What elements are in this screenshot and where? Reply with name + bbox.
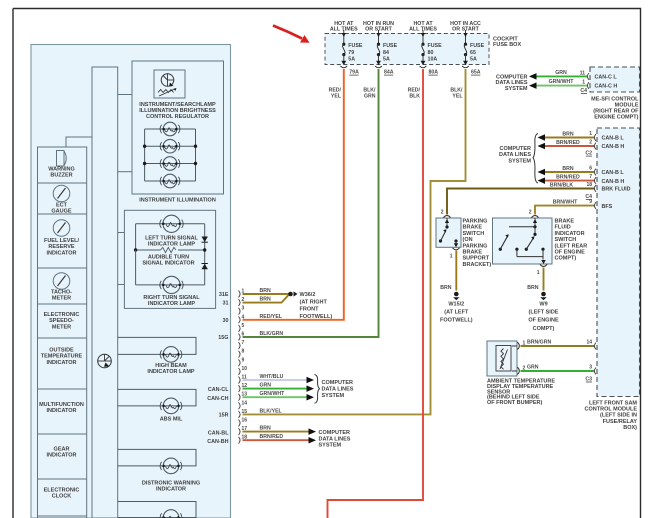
svg-text:DISTRONIC WARNING: DISTRONIC WARNING: [142, 481, 200, 487]
svg-text:RIGHT TURN SIGNAL: RIGHT TURN SIGNAL: [143, 295, 200, 301]
svg-text:16: 16: [242, 418, 248, 424]
svg-text:1: 1: [450, 254, 453, 260]
fuse 84 5A: [378, 30, 380, 44]
svg-text:2: 2: [529, 210, 532, 216]
svg-text:5A: 5A: [383, 56, 390, 62]
cluster pin 13: [239, 394, 241, 401]
svg-text:TACHO-: TACHO-: [51, 290, 72, 296]
cluster pin 11: [239, 377, 241, 384]
svg-text:GRN/WHT: GRN/WHT: [260, 391, 286, 397]
svg-text:31E: 31E: [219, 292, 229, 298]
svg-text:GRN/WHT: GRN/WHT: [549, 79, 575, 85]
wire BRN/GRN ambient sensor to SAM pin 14: [521, 345, 595, 347]
distronic warning indicator lamp: [163, 458, 179, 474]
svg-text:BRAKE: BRAKE: [555, 219, 575, 225]
svg-text:CAN-B L: CAN-B L: [602, 136, 625, 142]
wire BRN from pin 2 joining pin 1: [243, 295, 289, 303]
svg-text:BOX): BOX): [623, 425, 637, 431]
svg-text:W36/2: W36/2: [300, 292, 316, 298]
wire BRN/RED from pin 18: [243, 439, 309, 441]
wire GRN ambient sensor to SAM pin 3: [521, 370, 595, 372]
wire bus to turn box (upper): [118, 232, 125, 234]
svg-text:BRN: BRN: [562, 131, 573, 137]
svg-text:CONTROL MODULE: CONTROL MODULE: [585, 407, 638, 413]
wire RED/BLK from fuse 80 down off-page: [328, 69, 424, 518]
svg-text:BRN: BRN: [440, 285, 451, 291]
svg-text:FUSE BOX: FUSE BOX: [493, 42, 521, 48]
ambient temperature display temperature sensor B10/4 box: [487, 341, 517, 376]
diode V1 on right rail: [202, 237, 208, 243]
svg-text:31: 31: [223, 301, 229, 307]
brake fluid switch pin 1: [540, 265, 547, 267]
svg-text:INDICATOR: INDICATOR: [555, 231, 585, 237]
cluster pin 15: [239, 411, 241, 418]
wire GRN to ME-SFI CAN-C L: [536, 75, 587, 77]
svg-text:ABS MIL: ABS MIL: [160, 417, 183, 423]
wire BRN/RED to SAM CAN-B H pin 7: [544, 180, 594, 182]
wire GRN/WHT from pin 13: [243, 396, 307, 398]
svg-text:GRN: GRN: [527, 365, 539, 371]
svg-text:MULTIFUNCTION: MULTIFUNCTION: [39, 402, 84, 408]
left indicator column box: [38, 147, 87, 518]
wire BRN/BLK parking brake switch to SAM BRK FLUID pin 18: [447, 189, 594, 215]
svg-text:FUEL LEVEL/: FUEL LEVEL/: [44, 238, 80, 244]
high beam indicator circuit loop: [118, 337, 196, 354]
svg-text:3: 3: [589, 364, 592, 370]
svg-text:BLK/YEL: BLK/YEL: [260, 408, 283, 414]
svg-text:GRN: GRN: [555, 70, 567, 76]
svg-text:BLK/GRN: BLK/GRN: [260, 331, 284, 337]
cell divider: [38, 267, 87, 269]
svg-text:79A: 79A: [349, 70, 359, 76]
svg-text:2: 2: [441, 210, 444, 216]
fuse 79 5A: [343, 30, 345, 44]
svg-text:INDICATOR: INDICATOR: [46, 360, 76, 366]
svg-text:GAUGE: GAUGE: [51, 209, 72, 215]
instrument illumination lamp E2 row: [145, 145, 196, 147]
cell divider: [38, 515, 87, 517]
svg-text:FRONT: FRONT: [300, 307, 320, 313]
wire BRN/RED to SAM CAN-B H pin 2: [544, 145, 594, 147]
fuse 79 output connector: [341, 61, 346, 65]
svg-text:(LEFT SIDE IN: (LEFT SIDE IN: [600, 413, 637, 419]
svg-text:BUZZER: BUZZER: [50, 173, 72, 179]
svg-text:BRN/RED: BRN/RED: [556, 140, 580, 146]
diode V2 on right rail: [202, 264, 208, 270]
svg-text:SWITCH: SWITCH: [463, 231, 485, 237]
svg-text:BRN/GRN: BRN/GRN: [527, 340, 551, 346]
cluster pin 4: [239, 316, 241, 323]
svg-text:DATA LINES: DATA LINES: [322, 386, 354, 392]
fuel level gauge icon: [53, 220, 70, 237]
svg-text:METER: METER: [52, 324, 71, 330]
warning buzzer icon: [57, 151, 65, 167]
cell divider: [38, 213, 87, 215]
svg-text:7: 7: [589, 174, 592, 180]
svg-text:C4: C4: [580, 88, 587, 94]
cluster pin 6: [239, 334, 241, 341]
svg-text:7: 7: [242, 340, 245, 346]
cluster pin 5: [239, 325, 241, 332]
cluster pin 3: [239, 308, 241, 315]
svg-text:1: 1: [537, 270, 540, 276]
svg-text:BRK FLUID: BRK FLUID: [602, 187, 631, 193]
svg-text:CAN-B L: CAN-B L: [602, 170, 625, 176]
svg-text:INDICATOR LAMP: INDICATOR LAMP: [147, 369, 194, 375]
svg-text:(ON: (ON: [463, 237, 473, 243]
cluster pin 18: [239, 437, 241, 444]
svg-text:FUSE/RELAY: FUSE/RELAY: [603, 419, 638, 425]
svg-text:INDICATOR: INDICATOR: [46, 408, 76, 414]
illumination sub-box: [132, 61, 224, 194]
svg-text:(LEFT REAR: (LEFT REAR: [555, 243, 588, 249]
illumination brightness control regulator N72: [154, 70, 185, 98]
wire BLK/GRN from pin 6 to fuse 84: [243, 69, 379, 337]
svg-text:84: 84: [383, 50, 389, 56]
svg-text:INDICATOR LAMP: INDICATOR LAMP: [148, 301, 195, 307]
fuse 80 output connector: [421, 61, 426, 65]
svg-text:BRN: BRN: [260, 297, 271, 303]
svg-text:W9: W9: [539, 302, 547, 308]
svg-text:FUSE: FUSE: [428, 43, 443, 49]
svg-text:CAN-C L: CAN-C L: [595, 75, 618, 81]
right turn signal indicator lamp: [163, 276, 180, 293]
svg-text:SPEEDO-: SPEEDO-: [49, 318, 74, 324]
wire RED/YEL from pin 4 to fuse 79: [243, 69, 344, 320]
wire BRN to SAM CAN-B L pin 1: [544, 137, 594, 139]
svg-text:LEFT TURN SIGNAL: LEFT TURN SIGNAL: [145, 236, 198, 242]
svg-text:SYSTEM: SYSTEM: [508, 158, 531, 164]
svg-text:BRACKET): BRACKET): [463, 262, 492, 268]
svg-text:COMPUTER: COMPUTER: [500, 146, 532, 152]
instrument illumination lamp E1 row: [145, 128, 196, 130]
wire BRN from pin 17: [243, 431, 309, 433]
svg-text:AUDIBLE TURN: AUDIBLE TURN: [148, 255, 189, 261]
svg-text:BLK: BLK: [409, 94, 420, 100]
svg-text:15G: 15G: [218, 335, 228, 341]
svg-text:FUSE: FUSE: [348, 43, 363, 49]
fuse 65 output connector: [463, 61, 468, 65]
sensor pin 1: [518, 342, 520, 349]
svg-text:5A: 5A: [348, 56, 355, 62]
wire from left column to internal bus: [66, 137, 92, 147]
svg-text:BRN: BRN: [260, 426, 271, 432]
ground W15/2 (at left footwell): [454, 292, 459, 297]
brace computer data lines system: [533, 134, 538, 183]
cell divider: [38, 388, 87, 390]
svg-text:10A: 10A: [428, 56, 438, 62]
svg-text:(LEFT SIDE: (LEFT SIDE: [529, 310, 559, 316]
svg-text:(AT LEFT: (AT LEFT: [444, 310, 469, 316]
svg-text:BRN/WHT: BRN/WHT: [553, 199, 578, 205]
svg-text:BRN: BRN: [527, 285, 538, 291]
svg-text:BRAKE: BRAKE: [463, 225, 483, 231]
svg-text:2: 2: [523, 366, 526, 372]
sensor symbol in bus channel: [98, 354, 112, 368]
instrument illumination lamp E4 row: [145, 180, 196, 182]
svg-text:COMPT): COMPT): [555, 256, 577, 262]
ABS MIL circuit loop: [118, 389, 196, 406]
parking brake switch S12 box: [436, 218, 461, 247]
svg-text:1: 1: [523, 341, 526, 347]
svg-text:SIGNAL INDICATOR: SIGNAL INDICATOR: [142, 261, 194, 267]
svg-text:WHT/BLU: WHT/BLU: [260, 374, 284, 380]
fuse 80 10A: [422, 30, 424, 44]
svg-text:79: 79: [348, 50, 354, 56]
internal bus channel: [92, 67, 118, 518]
cluster pin 12: [239, 385, 241, 392]
svg-text:RED/YEL: RED/YEL: [260, 314, 283, 320]
instrument illumination lamp rails: [144, 129, 146, 181]
svg-text:11: 11: [580, 70, 586, 76]
svg-text:LEFT FRONT SAM: LEFT FRONT SAM: [589, 401, 637, 407]
svg-text:COMPUTER: COMPUTER: [322, 380, 354, 386]
svg-text:(AT RIGHT: (AT RIGHT: [300, 299, 328, 305]
svg-text:30: 30: [223, 318, 229, 324]
svg-text:PARKING: PARKING: [463, 219, 488, 225]
svg-text:14: 14: [586, 339, 592, 345]
brake fluid switch contacts: [534, 218, 536, 234]
svg-text:C3: C3: [585, 376, 592, 382]
svg-text:BRN: BRN: [562, 166, 573, 172]
svg-text:YEL: YEL: [331, 94, 342, 100]
svg-text:BRN/RED: BRN/RED: [260, 434, 284, 440]
svg-text:ELECTRONIC: ELECTRONIC: [44, 488, 80, 494]
svg-text:8: 8: [242, 349, 245, 355]
svg-text:INDICATOR: INDICATOR: [46, 250, 76, 256]
svg-text:METER: METER: [52, 296, 71, 302]
red annotation arrow: [273, 26, 302, 39]
svg-text:OUTSIDE: OUTSIDE: [49, 348, 74, 354]
audible turn signal indicator row with resistor: [136, 249, 161, 251]
svg-text:80A: 80A: [429, 70, 439, 76]
svg-text:YEL: YEL: [452, 94, 463, 100]
svg-text:GRN: GRN: [364, 94, 376, 100]
left turn signal indicator lamp row: [136, 223, 205, 225]
cluster pin 17: [239, 428, 241, 435]
svg-text:ECT: ECT: [56, 203, 68, 209]
cell divider: [38, 478, 87, 480]
svg-text:RESERVE: RESERVE: [48, 244, 75, 250]
turn circuit rails: [135, 224, 137, 250]
instrument illumination lamp E3 row: [145, 163, 196, 165]
wire BRN/WHT brake fluid switch to SAM BFS pin 9: [535, 206, 594, 215]
svg-text:COMPUTER: COMPUTER: [319, 430, 351, 436]
svg-text:CAN-BL: CAN-BL: [208, 431, 229, 437]
svg-text:CLOCK: CLOCK: [52, 494, 72, 500]
svg-text:INSTRUMENT ILLUMINATION: INSTRUMENT ILLUMINATION: [139, 198, 216, 204]
svg-text:SYSTEM: SYSTEM: [322, 393, 345, 399]
svg-text:WARNING: WARNING: [48, 167, 75, 173]
cell divider: [38, 337, 87, 339]
svg-text:INDICATOR: INDICATOR: [156, 487, 186, 493]
cluster pin 10: [239, 368, 241, 375]
ground W36/2 (at right front footwell): [288, 292, 293, 297]
wire bus to illumination rail: [118, 171, 132, 173]
svg-text:CONTROL REGULATOR: CONTROL REGULATOR: [146, 114, 209, 120]
svg-text:FOOTWELL): FOOTWELL): [440, 318, 473, 324]
svg-text:3: 3: [242, 306, 245, 312]
svg-text:BRAKE: BRAKE: [463, 250, 483, 256]
wire bus to turn box (lower): [118, 284, 125, 286]
svg-text:FUSE: FUSE: [383, 43, 398, 49]
cluster pin 1: [239, 291, 241, 298]
svg-text:TEMPERATURE: TEMPERATURE: [41, 354, 83, 360]
svg-text:CAN-CH: CAN-CH: [207, 396, 228, 402]
svg-text:C2: C2: [585, 151, 592, 157]
wire WHT/BLU from pin 11: [243, 379, 307, 381]
svg-text:84A: 84A: [384, 70, 394, 76]
brace and computer data lines system reference: [315, 375, 320, 404]
distronic warning indicator circuit loop: [118, 449, 196, 466]
cluster pin 2: [239, 299, 241, 306]
svg-text:CAN-B H: CAN-B H: [602, 179, 625, 185]
cluster pin 8: [239, 351, 241, 358]
bottom indicator circuit loop: [118, 502, 196, 518]
svg-text:80: 80: [428, 50, 434, 56]
svg-text:BRN: BRN: [260, 288, 271, 294]
wire BRN parking brake switch to ground: [455, 251, 457, 291]
cluster pin 7: [239, 342, 241, 349]
svg-text:FUSE: FUSE: [470, 43, 485, 49]
svg-text:18: 18: [586, 182, 592, 188]
svg-text:DATA LINES: DATA LINES: [319, 436, 351, 442]
fuse 65 5A: [465, 30, 467, 44]
svg-text:CAN-BH: CAN-BH: [207, 439, 228, 445]
cluster pin 16: [239, 420, 241, 427]
svg-text:SYSTEM: SYSTEM: [319, 443, 342, 449]
svg-text:CAN-B H: CAN-B H: [602, 144, 625, 150]
turn signal indicator sub-box: [124, 210, 215, 308]
ECT gauge icon: [53, 185, 70, 202]
cluster pin 9: [239, 359, 241, 366]
rail junction dots: [143, 145, 146, 148]
svg-text:DATA LINES: DATA LINES: [499, 152, 531, 158]
wire BLK/YEL from fuse 65 to pin 15: [243, 69, 466, 414]
ground W9 (left side of engine compt): [541, 292, 546, 297]
right turn signal indicator lamp row: [136, 284, 205, 286]
svg-text:9: 9: [242, 357, 245, 363]
svg-text:SYSTEM: SYSTEM: [505, 86, 528, 92]
svg-text:BFS: BFS: [602, 204, 613, 210]
svg-text:OF ENGINE: OF ENGINE: [528, 318, 559, 324]
svg-text:ELECTRONIC: ELECTRONIC: [44, 312, 80, 318]
svg-text:OF FRONT BUMPER): OF FRONT BUMPER): [487, 400, 542, 406]
svg-text:14: 14: [242, 400, 248, 406]
parking brake switch contacts: [446, 218, 448, 227]
svg-text:PARKING: PARKING: [463, 243, 488, 249]
svg-text:15R: 15R: [219, 413, 229, 419]
svg-text:65: 65: [470, 50, 476, 56]
svg-text:INDICATOR LAMP: INDICATOR LAMP: [148, 242, 195, 248]
svg-text:9: 9: [589, 199, 592, 205]
svg-text:ENGINE COMPT): ENGINE COMPT): [594, 115, 638, 121]
sensor pin 2: [518, 367, 520, 374]
svg-text:GEAR: GEAR: [54, 447, 70, 453]
brake fluid indicator switch S11 box: [493, 218, 553, 264]
wire GRN from pin 12: [243, 388, 307, 390]
svg-text:5A: 5A: [470, 56, 477, 62]
cell divider: [38, 182, 87, 184]
svg-text:6: 6: [589, 165, 592, 171]
fuse 84 output connector: [376, 61, 381, 65]
svg-text:CAN-C H: CAN-C H: [595, 84, 618, 90]
parking brake switch pin 1: [453, 248, 460, 250]
svg-text:W15/2: W15/2: [448, 302, 464, 308]
svg-text:GRN: GRN: [260, 383, 272, 389]
svg-text:65A: 65A: [471, 70, 481, 76]
svg-text:1: 1: [589, 131, 592, 137]
svg-text:5: 5: [242, 323, 245, 329]
cluster pin 14: [239, 402, 241, 409]
thermistor symbol: [501, 349, 504, 370]
cell divider: [38, 433, 87, 435]
wire GRN/WHT to ME-SFI CAN-C H: [536, 85, 587, 87]
wire BRN from pin 1: [243, 293, 290, 295]
tachometer gauge icon: [53, 273, 70, 290]
svg-text:COMPT): COMPT): [533, 326, 555, 332]
high beam indicator lamp: [163, 347, 179, 363]
left turn signal indicator lamp: [163, 215, 180, 232]
svg-text:SUPPORT: SUPPORT: [463, 256, 490, 262]
cell divider: [38, 303, 87, 305]
svg-text:OF ENGINE: OF ENGINE: [555, 250, 586, 256]
svg-text:FLUID: FLUID: [555, 225, 571, 231]
svg-text:HIGH BEAM: HIGH BEAM: [155, 363, 187, 369]
ABS MIL lamp: [163, 398, 179, 414]
wire BRN brake fluid switch to ground: [543, 268, 545, 291]
svg-text:BRN/RED: BRN/RED: [556, 174, 580, 180]
svg-text:BRN/BLK: BRN/BLK: [550, 182, 574, 188]
svg-text:CAN-CL: CAN-CL: [208, 387, 229, 393]
svg-text:10: 10: [242, 366, 248, 372]
cockpit fuse box: [325, 34, 489, 65]
wire bus to regulator: [118, 94, 132, 96]
instrument cluster box: [31, 45, 231, 518]
svg-text:2: 2: [589, 139, 592, 145]
left front SAM control module box: [597, 128, 640, 397]
svg-text:SWITCH: SWITCH: [555, 237, 577, 243]
svg-text:INDICATOR: INDICATOR: [46, 453, 76, 459]
ME-SFI control module U1 box: [590, 67, 640, 92]
wire BRN to SAM CAN-B L pin 6: [544, 171, 594, 173]
bottom indicator lamp (clipped): [163, 510, 179, 518]
svg-text:1: 1: [582, 80, 585, 86]
